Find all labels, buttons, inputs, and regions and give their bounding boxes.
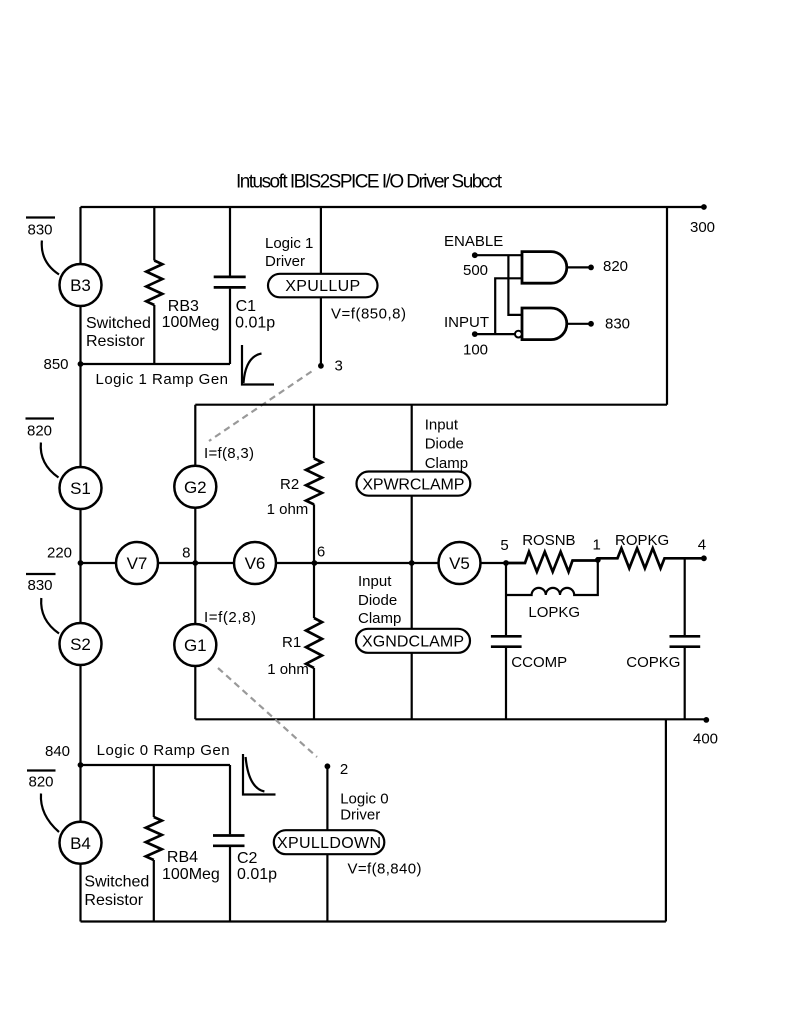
svg-text:Switched: Switched xyxy=(84,873,149,890)
svg-text:Resistor: Resistor xyxy=(86,333,145,350)
wire: XPULLUP stem from top rail xyxy=(320,207,322,274)
svg-text:Driver: Driver xyxy=(340,807,380,824)
subcircuit XPULLUP xyxy=(268,274,378,298)
icon: rising ramp graph xyxy=(242,345,274,385)
switch S1 xyxy=(60,467,102,509)
source V5 xyxy=(439,542,481,584)
junction dot node 850 xyxy=(78,361,84,367)
svg-text:1: 1 xyxy=(593,537,601,554)
svg-text:Resistor: Resistor xyxy=(84,892,143,909)
svg-text:Logic 0 Ramp Gen: Logic 0 Ramp Gen xyxy=(97,742,230,759)
svg-text:V7: V7 xyxy=(127,554,148,573)
junction dot node 6 xyxy=(312,560,318,566)
wire: gate U1 output xyxy=(567,266,591,268)
svg-text:LOPKG: LOPKG xyxy=(528,604,580,621)
svg-text:XPWRCLAMP: XPWRCLAMP xyxy=(362,476,464,493)
wire: clamp vertical branch xyxy=(411,405,413,720)
wire: node 220 to V7 xyxy=(81,562,117,564)
junction dot node 2 xyxy=(325,763,331,769)
wire: ENABLE down to gate U2 input A xyxy=(508,255,522,315)
resistor ROPKG xyxy=(598,548,704,568)
wire: V5 to node 5 xyxy=(481,562,507,564)
wire: mid box top rail xyxy=(195,404,667,406)
svg-text:R1: R1 xyxy=(282,634,301,651)
svg-text:6: 6 xyxy=(317,544,325,561)
junction dot node 220 xyxy=(78,560,84,566)
svg-text:0.01p: 0.01p xyxy=(237,866,277,883)
junction dot node 500 xyxy=(472,252,478,258)
wire: bottom ground rail xyxy=(81,920,666,922)
svg-text:R2: R2 xyxy=(280,476,299,493)
svg-text:Clamp: Clamp xyxy=(358,610,401,627)
svg-text:1 ohm: 1 ohm xyxy=(267,661,309,678)
svg-text:B4: B4 xyxy=(70,834,91,853)
junction dot node 3 xyxy=(318,363,324,369)
svg-text:B3: B3 xyxy=(70,276,91,295)
source B4 xyxy=(60,822,102,864)
junction dot gate U1 output 820 xyxy=(588,265,594,271)
svg-text:830: 830 xyxy=(605,316,630,333)
resistor ROSNB xyxy=(506,552,598,572)
svg-text:820: 820 xyxy=(603,258,628,275)
resistor R1 xyxy=(313,563,315,719)
callout arc 830 to B3 xyxy=(42,241,59,275)
svg-text:2: 2 xyxy=(340,761,348,778)
node label 830 (overline) for S2 xyxy=(26,573,56,575)
svg-text:I=f(8,3): I=f(8,3) xyxy=(204,445,254,462)
callout arc 830 to S2 xyxy=(41,598,59,634)
and-gate U1 xyxy=(522,252,567,284)
wire: XPULLUP output to node 3 xyxy=(320,297,322,365)
resistor RB4 xyxy=(153,765,155,922)
svg-text:Diode: Diode xyxy=(425,436,464,453)
wire: V7 to node 8 to V6 xyxy=(158,562,234,564)
wire: G branch vertical (mid box left edge) xyxy=(194,405,196,720)
svg-text:Logic 1 Ramp Gen: Logic 1 Ramp Gen xyxy=(96,371,229,388)
svg-text:S2: S2 xyxy=(70,635,91,654)
junction dot node 1 xyxy=(595,557,601,563)
svg-text:820: 820 xyxy=(27,423,52,440)
wire: INPUT to gate U2 bubble xyxy=(475,333,515,335)
wire: lower right vertical xyxy=(665,719,667,921)
dashed control line G1 to node 2 xyxy=(218,668,317,757)
wire: INPUT up to gate U1 input B xyxy=(495,278,522,334)
capacitor C1 xyxy=(229,207,231,364)
dashed control line node 3 to G2 xyxy=(209,372,312,442)
svg-text:XPULLDOWN: XPULLDOWN xyxy=(277,835,381,852)
inverter bubble on U2 input xyxy=(515,331,522,338)
svg-text:820: 820 xyxy=(29,774,54,791)
svg-text:500: 500 xyxy=(463,262,488,279)
svg-text:Logic 1: Logic 1 xyxy=(265,235,313,252)
wire: ENABLE to gate U1 input A xyxy=(475,254,522,256)
junction dot node 4 xyxy=(701,555,707,561)
inductor LOPKG xyxy=(506,561,598,596)
junction dot node 100 xyxy=(472,331,478,337)
svg-text:ROPKG: ROPKG xyxy=(615,532,669,549)
junction dot node 300 xyxy=(701,204,707,210)
svg-text:S1: S1 xyxy=(70,479,91,498)
svg-text:V=f(850,8): V=f(850,8) xyxy=(331,306,406,323)
junction dot node 5 xyxy=(503,560,509,566)
svg-text:RB3: RB3 xyxy=(168,298,199,315)
junction dot node 400 xyxy=(703,717,709,723)
subcircuit XGNDCLAMP xyxy=(356,629,470,653)
subcircuit XPWRCLAMP xyxy=(357,472,471,496)
svg-text:Input: Input xyxy=(425,416,459,433)
svg-text:8: 8 xyxy=(182,545,190,562)
wire: XPULLDOWN to bottom rail xyxy=(326,854,328,921)
svg-text:I=f(2,8): I=f(2,8) xyxy=(204,609,256,626)
svg-text:1 ohm: 1 ohm xyxy=(267,501,309,518)
node label 820 (overline) for S1 xyxy=(26,417,55,419)
svg-text:RB4: RB4 xyxy=(167,849,198,866)
capacitor C2 xyxy=(229,765,231,922)
resistor RB3 xyxy=(153,207,155,364)
svg-text:G2: G2 xyxy=(184,478,207,497)
wire: left rail segments xyxy=(79,207,81,922)
svg-text:220: 220 xyxy=(47,545,72,562)
svg-text:CCOMP: CCOMP xyxy=(511,654,567,671)
switch S2 xyxy=(60,623,102,665)
svg-text:850: 850 xyxy=(44,356,69,373)
current source G1 xyxy=(174,624,216,666)
junction dot node 8 xyxy=(192,560,198,566)
icon: falling ramp graph xyxy=(243,754,276,795)
capacitor CCOMP xyxy=(505,563,507,719)
node label 820 (overline) for B4 xyxy=(27,769,56,771)
svg-text:100Meg: 100Meg xyxy=(162,314,220,331)
svg-text:C2: C2 xyxy=(237,850,258,867)
svg-text:V5: V5 xyxy=(449,554,470,573)
current source G2 xyxy=(174,466,216,508)
svg-text:5: 5 xyxy=(500,537,508,554)
svg-text:V6: V6 xyxy=(245,554,266,573)
wire: mid box bottom rail to node 400 xyxy=(195,718,706,720)
svg-text:Switched: Switched xyxy=(86,315,151,332)
svg-text:830: 830 xyxy=(28,222,53,239)
svg-text:INPUT: INPUT xyxy=(444,314,489,331)
junction dot gate U2 output 830 xyxy=(588,321,594,327)
svg-text:Intusoft IBIS2SPICE I/O Driver: Intusoft IBIS2SPICE I/O Driver Subcct xyxy=(236,172,503,193)
svg-text:Logic 0: Logic 0 xyxy=(340,790,388,807)
wire: node 2 to XPULLDOWN xyxy=(326,766,328,830)
source V6 xyxy=(234,542,276,584)
svg-text:G1: G1 xyxy=(184,636,207,655)
svg-text:3: 3 xyxy=(335,358,343,375)
wire: gate U2 output xyxy=(567,323,591,325)
svg-text:Input: Input xyxy=(358,573,392,590)
and-gate U2 xyxy=(522,308,567,340)
svg-text:V=f(8,840): V=f(8,840) xyxy=(348,861,422,878)
svg-text:ROSNB: ROSNB xyxy=(522,532,575,549)
source V7 xyxy=(116,542,158,584)
svg-text:XGNDCLAMP: XGNDCLAMP xyxy=(362,634,464,651)
wire: V6 through node 6 and clamp junction to V5 xyxy=(276,562,439,564)
junction dot clamp net xyxy=(409,560,415,566)
svg-text:400: 400 xyxy=(693,730,718,747)
svg-text:100Meg: 100Meg xyxy=(162,866,220,883)
svg-text:840: 840 xyxy=(45,743,70,760)
svg-text:Clamp: Clamp xyxy=(425,455,468,472)
svg-text:XPULLUP: XPULLUP xyxy=(285,278,360,295)
wire: right vertical from top rail to clamp box rail xyxy=(666,207,668,405)
svg-text:Diode: Diode xyxy=(358,592,397,609)
subcircuit XPULLDOWN xyxy=(274,830,385,854)
source B3 xyxy=(60,264,102,306)
junction dot node 840 xyxy=(78,762,84,768)
svg-text:COPKG: COPKG xyxy=(626,654,680,671)
wire: top power rail node 300 xyxy=(81,206,704,208)
wire: node 840 rail xyxy=(81,764,231,766)
svg-text:ENABLE: ENABLE xyxy=(444,233,503,250)
svg-text:C1: C1 xyxy=(236,298,257,315)
resistor R2 xyxy=(313,405,315,563)
callout arc 820 to S1 xyxy=(41,443,59,478)
svg-text:Driver: Driver xyxy=(265,253,305,270)
svg-text:830: 830 xyxy=(28,577,53,594)
capacitor COPKG xyxy=(684,558,686,719)
svg-text:4: 4 xyxy=(698,537,706,554)
svg-text:300: 300 xyxy=(690,219,715,236)
wire: node 850 rail xyxy=(81,363,231,365)
callout arc 820 to B4 xyxy=(41,794,59,833)
node label 830 (overline) for B3 xyxy=(26,216,55,218)
svg-text:0.01p: 0.01p xyxy=(235,314,275,331)
svg-text:100: 100 xyxy=(463,342,488,359)
